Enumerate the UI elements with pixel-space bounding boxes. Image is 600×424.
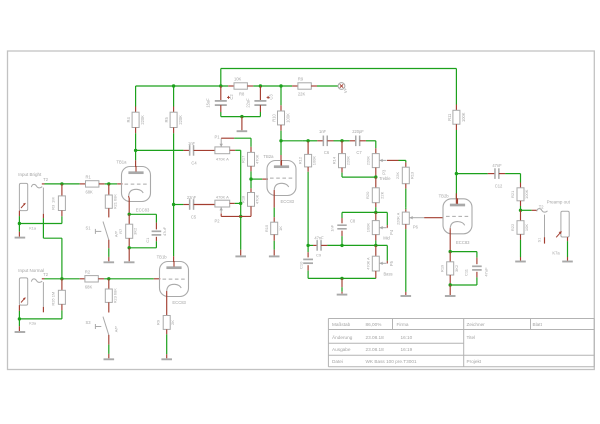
- svg-text:R22: R22: [510, 223, 515, 231]
- svg-text:S1: S1: [85, 225, 91, 230]
- svg-text:K1a: K1a: [29, 227, 37, 231]
- svg-text:R21 68K: R21 68K: [113, 194, 118, 210]
- svg-text:R21: R21: [510, 190, 515, 198]
- svg-text:WK Bass 100 pre.T3001: WK Bass 100 pre.T3001: [366, 359, 417, 364]
- svg-text:Projekt: Projekt: [467, 359, 482, 364]
- svg-text:R13: R13: [409, 171, 414, 179]
- wire R2 to TB1b grid: [104, 278, 154, 280]
- wire plate node TB2a: [281, 140, 302, 142]
- svg-text:V+: V+: [343, 87, 348, 93]
- resistor R5 220K: [173, 86, 175, 107]
- svg-text:Zeichner: Zeichner: [467, 322, 486, 327]
- svg-text:ECC83: ECC83: [172, 300, 186, 305]
- resistor R22 10K: [520, 210, 522, 220]
- ground input normal: [18, 319, 20, 326]
- ground input bright: [18, 224, 20, 232]
- resistor R26 1M grid leak: [61, 279, 63, 291]
- svg-text:C9: C9: [316, 253, 322, 258]
- ground tone stack: [341, 278, 343, 287]
- svg-text:C8: C8: [350, 219, 356, 224]
- svg-text:47nF: 47nF: [492, 163, 502, 168]
- svg-text:P1: P1: [214, 134, 220, 139]
- wire to P3 top: [375, 141, 377, 148]
- svg-text:220K: 220K: [178, 115, 183, 125]
- svg-text:C12: C12: [495, 183, 503, 188]
- svg-text:TB2a: TB2a: [263, 154, 274, 159]
- resistor R19 3K2 cathode: [449, 252, 451, 262]
- resistor R20 22K: [375, 177, 377, 188]
- svg-text:R20: R20: [365, 191, 370, 199]
- svg-text:R9: R9: [298, 76, 304, 81]
- svg-text:470K A: 470K A: [366, 257, 370, 270]
- svg-text:P6: P6: [413, 225, 419, 230]
- svg-text:R2: R2: [85, 269, 91, 274]
- resistor R13 22K: [405, 162, 407, 167]
- svg-text:22K: 22K: [379, 191, 384, 198]
- svg-text:220pF: 220pF: [352, 129, 364, 134]
- ground TB2b cathode: [449, 285, 451, 295]
- svg-text:R8: R8: [239, 92, 245, 97]
- resistor R3 1M grid leak: [61, 184, 63, 196]
- svg-text:R7: R7: [118, 228, 123, 234]
- ground P6: [405, 292, 407, 295]
- svg-text:K7a: K7a: [552, 251, 560, 256]
- capacitor C6 1nF: [302, 140, 317, 142]
- svg-text:R9: R9: [156, 319, 161, 325]
- svg-text:68K: 68K: [85, 285, 93, 290]
- svg-text:Ausgabe: Ausgabe: [332, 347, 351, 352]
- ground pots: [240, 250, 242, 256]
- svg-text:220K: 220K: [140, 115, 145, 125]
- capacitor C3: [259, 86, 261, 101]
- capacitor C4 1nF: [183, 149, 189, 151]
- wire input normal to R2: [42, 278, 45, 280]
- svg-text:R18: R18: [240, 195, 245, 203]
- svg-text:1K: 1K: [278, 226, 283, 231]
- wire bass bottom row: [308, 277, 376, 279]
- svg-text:22nF: 22nF: [187, 195, 197, 200]
- svg-text:R12: R12: [297, 156, 302, 164]
- svg-text:100K: 100K: [365, 223, 370, 233]
- svg-text:C10: C10: [298, 261, 303, 269]
- svg-text:C1: C1: [145, 237, 150, 243]
- svg-text:R5: R5: [164, 117, 169, 123]
- wire TB1b anode to C5: [174, 204, 184, 206]
- resistor R18 470K: [250, 188, 252, 192]
- svg-text:C4: C4: [191, 161, 197, 166]
- wire bass row: [308, 244, 313, 246]
- resistor R15 1K cathode: [273, 192, 275, 208]
- capacitor C1 47uF cathode bypass: [155, 223, 157, 230]
- wire R1 to TB1a grid: [105, 183, 118, 185]
- svg-text:23.08.18: 23.08.18: [366, 335, 385, 340]
- svg-text:T2: T2: [43, 272, 49, 277]
- ground S1: [108, 248, 110, 257]
- title block table: [328, 318, 594, 320]
- wire jack sleeve ch1: [18, 211, 20, 217]
- svg-text:ECC83: ECC83: [136, 207, 150, 212]
- capacitor C11 47uF cathode bypass: [476, 258, 478, 265]
- svg-text:470K: 470K: [255, 154, 260, 164]
- svg-text:R14: R14: [331, 156, 336, 164]
- resistor R9 2K cathode: [166, 293, 168, 316]
- svg-text:C11: C11: [463, 268, 468, 276]
- svg-text:3K2: 3K2: [454, 264, 459, 272]
- svg-text:22K: 22K: [395, 172, 400, 179]
- svg-text:R1: R1: [86, 174, 92, 179]
- svg-text:C7: C7: [356, 150, 362, 155]
- svg-text:R11: R11: [447, 113, 452, 121]
- wire P3 wiper to R13: [387, 159, 399, 161]
- potentiometer P2 470K A: [215, 200, 230, 207]
- capacitor C8 1nF: [341, 212, 343, 218]
- svg-text:Titel: Titel: [467, 335, 476, 340]
- wire output jack sleeve: [567, 237, 569, 241]
- svg-text:Treble: Treble: [379, 176, 391, 181]
- potentiometer P4 Mid 100K: [375, 212, 377, 220]
- svg-text:100K: 100K: [524, 189, 529, 199]
- svg-text:16:10: 16:10: [401, 335, 413, 340]
- svg-text:ECC83: ECC83: [281, 199, 295, 204]
- potentiometer P5 Bass 470K A: [375, 245, 377, 256]
- wire TB1a cathode: [128, 198, 130, 215]
- svg-text:Mid: Mid: [383, 236, 390, 241]
- svg-text:Maßstab: Maßstab: [332, 322, 351, 327]
- resistor R7 3K2 cathode: [128, 214, 130, 224]
- svg-text:100K: 100K: [286, 113, 291, 123]
- svg-text:47uF: 47uF: [483, 267, 488, 277]
- svg-text:22uF: 22uF: [246, 98, 251, 108]
- svg-text:Datei: Datei: [332, 359, 343, 364]
- supply terminal V+: [317, 85, 338, 87]
- svg-text:R17: R17: [240, 155, 245, 163]
- resistor R17 470K: [250, 147, 252, 153]
- svg-text:16:19: 16:19: [401, 347, 413, 352]
- switch S1 A/P: [108, 208, 110, 217]
- svg-text:10K: 10K: [524, 224, 529, 231]
- svg-text:Input Normal: Input Normal: [18, 268, 44, 273]
- svg-text:P5: P5: [389, 260, 394, 266]
- svg-text:S3: S3: [85, 320, 91, 325]
- svg-text:R4: R4: [126, 117, 131, 123]
- svg-text:470K A: 470K A: [216, 157, 229, 162]
- svg-text:P4: P4: [389, 229, 394, 235]
- svg-text:C3: C3: [269, 94, 274, 100]
- potentiometer P3 Treble 220K: [372, 154, 379, 168]
- wire mid row: [342, 211, 387, 213]
- svg-text:C2: C2: [229, 94, 234, 100]
- svg-text:R23 68K: R23 68K: [113, 288, 118, 304]
- wire filter cap bottoms: [221, 116, 261, 118]
- wire TB1a anode: [135, 160, 137, 167]
- wire jack sleeve ch2: [18, 305, 20, 311]
- svg-text:R26: R26: [50, 298, 55, 306]
- wire input bright to R1: [42, 183, 45, 185]
- ground TB2a cathode: [273, 250, 275, 256]
- ground R7 C1: [128, 248, 130, 261]
- svg-text:220K: 220K: [346, 156, 351, 166]
- wire mixer to TB2a grid: [251, 178, 262, 180]
- svg-text:470K: 470K: [255, 194, 260, 204]
- svg-text:220K A: 220K A: [396, 212, 400, 225]
- svg-text:47nF: 47nF: [314, 236, 324, 241]
- wire anode node to C4: [136, 149, 184, 151]
- svg-text:1nF: 1nF: [188, 141, 196, 146]
- resistor R10 100K: [280, 86, 282, 105]
- capacitor C9 47nF: [313, 244, 317, 246]
- svg-text:TB1a: TB1a: [116, 160, 127, 165]
- svg-text:Bass: Bass: [383, 271, 392, 276]
- svg-text:A/P: A/P: [113, 326, 118, 333]
- ground output jack: [567, 257, 569, 261]
- svg-text:R10: R10: [272, 113, 277, 121]
- svg-text:P3: P3: [381, 169, 386, 175]
- svg-text:S1: S1: [537, 238, 541, 243]
- connector K1a jack input bright: [19, 183, 27, 210]
- capacitor C10 47nF: [307, 245, 309, 252]
- svg-text:Firma: Firma: [397, 322, 409, 327]
- wire P6 wiper to TB2b grid: [424, 217, 443, 219]
- wire to preamp out jack: [521, 209, 532, 211]
- svg-text:Preamp out: Preamp out: [547, 200, 571, 205]
- switch S3 A/P: [108, 302, 110, 312]
- resistor R21 100K output: [520, 174, 522, 183]
- wire normal jack switch stub: [42, 282, 44, 307]
- svg-text:Blatt: Blatt: [533, 322, 543, 327]
- capacitor C5 22nF: [183, 204, 189, 206]
- potentiometer P1 470K A: [215, 147, 230, 154]
- svg-text:86,00%: 86,00%: [366, 322, 382, 327]
- wire bright jack switch to normal input: [42, 188, 44, 214]
- svg-text:1M: 1M: [50, 292, 55, 298]
- svg-text:47uF: 47uF: [162, 226, 167, 236]
- svg-text:R19: R19: [440, 264, 445, 272]
- svg-text:15uF: 15uF: [206, 98, 211, 108]
- svg-text:R3: R3: [50, 204, 55, 210]
- wire TB1b anode pin: [173, 256, 175, 262]
- resistor R8: [228, 85, 234, 87]
- potentiometer P6 220K A: [402, 212, 409, 224]
- svg-text:C5: C5: [191, 215, 197, 220]
- svg-text:1M: 1M: [50, 197, 55, 203]
- svg-text:C6: C6: [324, 150, 330, 155]
- svg-text:ECC83: ECC83: [456, 240, 470, 245]
- wire TB2b anode pin: [455, 193, 457, 199]
- wire main supply rail: [136, 85, 229, 87]
- ground R22: [520, 257, 522, 261]
- capacitor C2: [220, 86, 222, 101]
- capacitor C7 220pF: [340, 139, 343, 142]
- svg-text:1nF: 1nF: [329, 224, 334, 231]
- svg-text:2K: 2K: [170, 320, 175, 325]
- svg-text:470K A: 470K A: [216, 194, 229, 199]
- wire top supply rail: [221, 68, 457, 70]
- resistor R11 100K: [455, 105, 457, 111]
- svg-text:23.08.18: 23.08.18: [366, 347, 385, 352]
- wire P6 column: [405, 207, 407, 209]
- svg-text:22K: 22K: [298, 92, 306, 97]
- wire TB2b anode to C12: [456, 173, 487, 175]
- wire P2 wiper to R18: [220, 213, 222, 216]
- resistor R4 220K: [135, 86, 137, 107]
- ground TB1b cathode: [166, 354, 168, 358]
- resistor R14 220K: [341, 141, 343, 154]
- svg-text:100K: 100K: [312, 156, 317, 166]
- svg-text:Änderung: Änderung: [332, 334, 353, 340]
- svg-text:TB2b: TB2b: [439, 194, 450, 199]
- svg-text:P2: P2: [214, 218, 220, 223]
- resistor R21 68K: [108, 184, 110, 195]
- wire TB2b cathode: [449, 230, 451, 252]
- resistor R9: [292, 85, 298, 87]
- wire rail after R8: [253, 85, 292, 87]
- svg-text:100K: 100K: [461, 112, 466, 122]
- ground filter: [241, 117, 243, 131]
- svg-text:220K: 220K: [365, 156, 370, 166]
- resistor R2 68K: [80, 278, 85, 280]
- connector K3a jack input normal: [19, 278, 27, 305]
- svg-text:K3a: K3a: [29, 321, 37, 325]
- wire pot ground column: [240, 150, 242, 249]
- resistor R12 100K: [306, 139, 309, 142]
- svg-text:TB1b: TB1b: [157, 254, 168, 259]
- svg-text:Input Bright: Input Bright: [18, 172, 42, 177]
- drawing frame: [8, 51, 595, 370]
- svg-text:68K: 68K: [86, 190, 94, 195]
- resistor R1 68K: [80, 183, 86, 185]
- svg-text:R15: R15: [264, 224, 269, 232]
- svg-text:3K2: 3K2: [133, 227, 138, 235]
- svg-text:T2: T2: [43, 177, 49, 182]
- resistor R23 68K: [108, 279, 110, 289]
- svg-text:1nF: 1nF: [319, 129, 327, 134]
- svg-text:10K: 10K: [234, 76, 242, 81]
- ground S3: [108, 345, 110, 354]
- capacitor C12 47nF: [488, 173, 495, 175]
